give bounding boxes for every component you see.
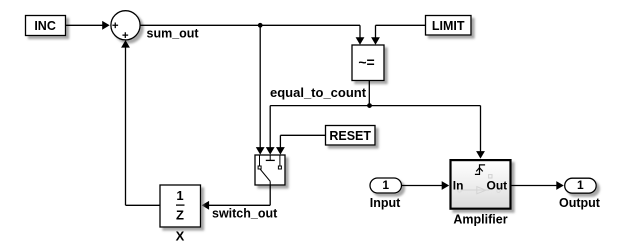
- wire INC to sum: [66, 21, 110, 30]
- wire junction to Amplifier trigger: [369, 106, 485, 159]
- svg-text:Z: Z: [176, 208, 184, 223]
- svg-text:X: X: [176, 229, 185, 244]
- svg-text:1: 1: [382, 178, 389, 192]
- svg-text:In: In: [453, 179, 464, 193]
- svg-text:1: 1: [176, 188, 183, 203]
- wire Input to Amplifier: [402, 181, 450, 190]
- wire switch to unit delay: [202, 185, 271, 210]
- wire relational operator output: [368, 81, 370, 106]
- svg-text:1: 1: [577, 178, 584, 192]
- inport block 1 Input: [370, 178, 402, 193]
- svg-text:Amplifier: Amplifier: [453, 213, 507, 227]
- junction node equal_to_count: [367, 103, 372, 108]
- wire Amplifier to Output: [512, 181, 564, 190]
- wire junction to switch input 1: [256, 25, 265, 154]
- svg-text:Input: Input: [370, 196, 401, 210]
- svg-text:RESET: RESET: [329, 129, 371, 143]
- wire RESET to switch input 3: [276, 135, 326, 154]
- constant block INC: [26, 16, 66, 36]
- switch block: [255, 155, 285, 185]
- wire unit delay to sum: [121, 40, 160, 205]
- wire LIMIT to relational operator: [371, 25, 425, 44]
- junction node sum_out: [258, 23, 263, 28]
- svg-text:Out: Out: [487, 179, 508, 193]
- relational operator block ~=: [352, 45, 384, 81]
- constant block LIMIT: [426, 16, 472, 36]
- unit delay block X: [160, 185, 201, 227]
- svg-text:switch_out: switch_out: [212, 207, 278, 221]
- subsystem block Amplifier: [451, 160, 511, 209]
- svg-text:LIMIT: LIMIT: [432, 19, 465, 33]
- svg-text:sum_out: sum_out: [147, 27, 200, 41]
- wire sum to relational operator: [140, 25, 364, 44]
- svg-text:Output: Output: [559, 196, 601, 210]
- svg-text:INC: INC: [34, 19, 56, 33]
- constant block RESET: [326, 126, 376, 146]
- outport block 1 Output: [565, 178, 597, 193]
- wire junction to switch input 2: [266, 106, 370, 155]
- svg-text:equal_to_count: equal_to_count: [270, 85, 367, 100]
- svg-text:~=: ~=: [358, 54, 374, 70]
- sum block U1: [111, 11, 140, 40]
